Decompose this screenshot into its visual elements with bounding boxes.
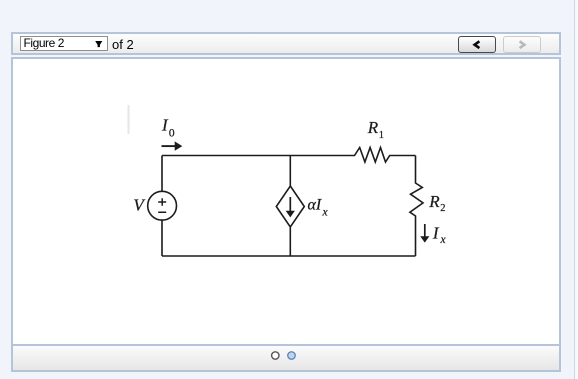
svg-text:αI: αI (308, 196, 322, 213)
svg-text:x: x (322, 207, 329, 219)
svg-text:V: V (133, 196, 146, 215)
svg-text:2: 2 (440, 203, 445, 214)
svg-text:I: I (161, 115, 169, 134)
svg-text:x: x (440, 234, 447, 246)
svg-text:R: R (428, 192, 440, 211)
svg-text:1: 1 (379, 130, 384, 141)
svg-text:R: R (367, 118, 379, 137)
svg-text:I: I (432, 223, 440, 242)
svg-text:0: 0 (169, 127, 175, 139)
